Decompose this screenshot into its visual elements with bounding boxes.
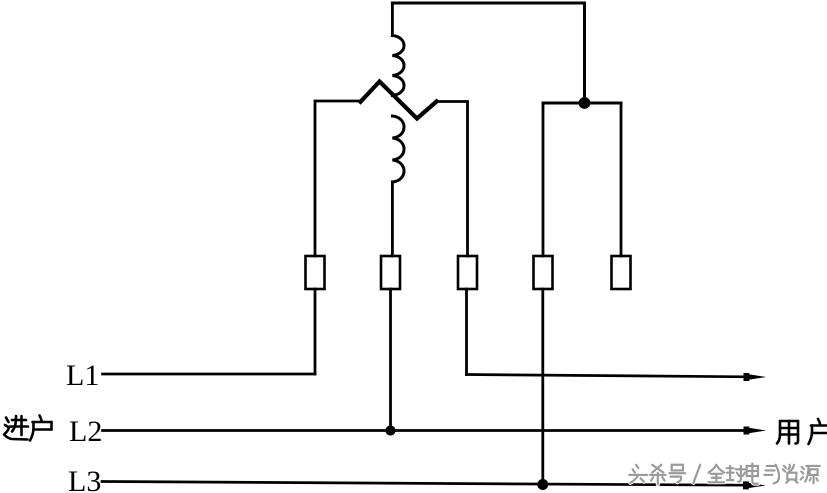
wire: top rail from voltage coil to right drop bbox=[392, 2, 584, 5]
junction: dot L3 to terminal box 4 bbox=[538, 480, 548, 490]
label: yonghu (user) glyph yong bbox=[777, 421, 798, 444]
inductor: voltage coil lower half bbox=[392, 116, 404, 182]
terminal box 2 bbox=[381, 256, 400, 289]
terminal box 5 bbox=[612, 256, 631, 289]
terminal box 4 bbox=[534, 256, 553, 289]
terminal box 1 bbox=[306, 256, 325, 289]
arrow: L3 output arrowhead bbox=[743, 481, 766, 489]
label: jinhu (incoming supply) glyph jin bbox=[4, 416, 28, 440]
arrow: L1 output arrowhead bbox=[744, 373, 767, 381]
wire: voltage coil bottom lead to terminal box 2 bbox=[391, 182, 394, 256]
inductor: voltage coil upper half bbox=[392, 36, 404, 96]
junction: dot L2 to voltage coil bbox=[386, 426, 395, 435]
junction: dot at voltage tap on header bbox=[579, 98, 590, 109]
arrow: L2 output arrowhead bbox=[744, 427, 767, 435]
wire: terminal box 4 down to L3 bbox=[541, 289, 544, 484]
inductor: current coil crossing diagonals bbox=[361, 82, 437, 119]
wire: voltage terminal header bar bbox=[543, 102, 621, 105]
wire: terminal box 3 down to L1 out bbox=[465, 289, 468, 375]
wire: terminal box 1 down to L1 in bbox=[314, 289, 317, 374]
wire: line L1 incoming segment bbox=[103, 373, 316, 376]
svg-text:L3: L3 bbox=[68, 465, 101, 493]
wire: header down to terminal box 5 bbox=[620, 103, 623, 256]
label: yonghu (user) glyph hu bbox=[809, 419, 827, 444]
svg-text:L2: L2 bbox=[69, 415, 102, 448]
terminal box 3 bbox=[458, 256, 477, 289]
wire: current coil right lead to terminal box 3 bbox=[436, 102, 468, 257]
wire: line L2 through bbox=[103, 429, 746, 432]
wire: voltage coil top lead bbox=[391, 3, 394, 36]
wire: line L3 through bbox=[102, 482, 744, 486]
wire: terminal box 2 down to L2 bbox=[389, 289, 392, 431]
wire: header down to terminal box 4 bbox=[542, 103, 545, 256]
label: jinhu (incoming supply) glyph hu bbox=[30, 416, 52, 441]
svg-text:L1: L1 bbox=[66, 359, 99, 392]
wire: current coil left lead from terminal box 1 bbox=[315, 101, 362, 256]
wire: line L1 outgoing segment bbox=[467, 375, 746, 377]
wire: right vertical drop to voltage-terminal header bbox=[583, 3, 586, 103]
